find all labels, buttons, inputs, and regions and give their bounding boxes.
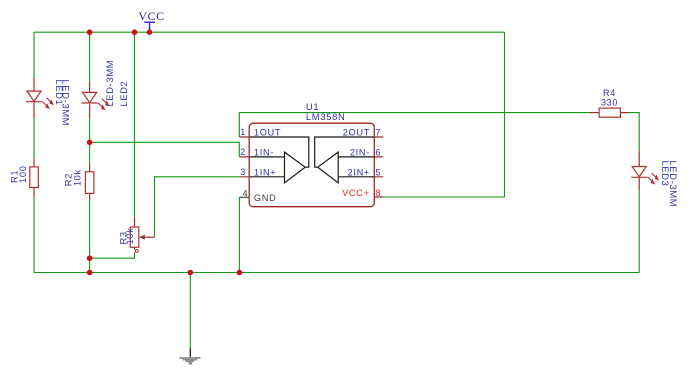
svg-text:2IN+: 2IN+	[348, 167, 370, 177]
svg-text:R4: R4	[603, 88, 616, 98]
wire left branch vertical (LED1/R1)	[33, 32, 35, 272]
svg-text:VCC+: VCC+	[342, 188, 370, 198]
svg-text:8: 8	[375, 188, 381, 198]
op-amp B internals	[315, 137, 375, 183]
wire pin 4 to ground rail	[238, 197, 240, 272]
U1 pin numbers	[240, 127, 381, 199]
resistor R4	[589, 88, 629, 117]
svg-text:100: 100	[18, 165, 28, 183]
U1 pin stubs right	[374, 137, 383, 197]
U1 pin names	[254, 128, 370, 203]
resistor R2	[64, 164, 94, 200]
junction VCC symbol tap on VCC rail	[147, 29, 153, 35]
wire pin 8 to VCC rail	[383, 32, 504, 197]
svg-text:6: 6	[375, 147, 381, 157]
svg-text:1IN-: 1IN-	[254, 148, 274, 158]
junction R3 branch on VCC rail	[132, 29, 138, 35]
wire R3 wiper to pin 3	[155, 177, 240, 237]
wire LED2/R2 branch vertical	[89, 32, 91, 272]
U1 pin stubs left	[239, 137, 249, 177]
LED LED1	[26, 78, 71, 126]
svg-text:GND: GND	[254, 193, 277, 203]
ground symbol	[179, 348, 200, 364]
svg-text:1IN+: 1IN+	[254, 167, 276, 177]
svg-text:VCC: VCC	[138, 9, 164, 23]
junction LED2/R2/pin2 node	[87, 140, 93, 146]
op-amp A internals	[250, 137, 309, 183]
wire R4 to LED3	[629, 113, 639, 151]
svg-text:2OUT: 2OUT	[343, 128, 370, 138]
op-amp U1 LM358N box	[249, 101, 374, 207]
wire R3 top branch	[134, 32, 136, 217]
U1 pin 4 stub (GND, grey)	[239, 196, 249, 198]
junction R2 branch on ground rail	[87, 270, 93, 276]
wire bottom ground rail	[34, 272, 639, 274]
svg-text:LED-3MM: LED-3MM	[61, 80, 71, 127]
resistor R1	[10, 159, 39, 197]
wire R3 bottom to R2 branch	[90, 252, 135, 258]
LED LED2	[82, 60, 129, 119]
svg-text:LED2: LED2	[119, 80, 129, 106]
svg-text:10k: 10k	[72, 169, 82, 186]
svg-text:2: 2	[240, 147, 246, 157]
wire top VCC rail	[34, 31, 505, 33]
wire ground symbol tap	[189, 273, 191, 349]
svg-text:1: 1	[240, 127, 246, 137]
svg-text:3: 3	[240, 167, 246, 177]
potentiometer R3	[119, 218, 155, 253]
VCC supply symbol	[138, 9, 164, 32]
wire LED3 to ground rail	[638, 191, 640, 273]
svg-text:5: 5	[375, 167, 381, 177]
svg-text:1OUT: 1OUT	[254, 128, 281, 138]
svg-text:LM358N: LM358N	[306, 111, 346, 122]
junction ground symbol tap on ground rail	[188, 270, 194, 276]
junction pin 4 wire on ground rail	[237, 270, 243, 276]
svg-text:330: 330	[601, 98, 618, 108]
svg-text:10k: 10k	[125, 227, 135, 244]
junction LED2 branch on VCC rail	[87, 29, 93, 35]
wire pin 1 to R4	[239, 113, 589, 137]
svg-text:4: 4	[242, 189, 248, 199]
LED LED3	[631, 151, 678, 207]
svg-text:LED-3MM: LED-3MM	[105, 60, 115, 107]
wire junction to pin 2	[90, 142, 240, 157]
svg-text:7: 7	[375, 128, 381, 138]
svg-text:LED-3MM: LED-3MM	[668, 161, 678, 208]
junction R3 bottom tap on R2 branch	[87, 255, 93, 261]
svg-text:2IN-: 2IN-	[350, 148, 370, 158]
